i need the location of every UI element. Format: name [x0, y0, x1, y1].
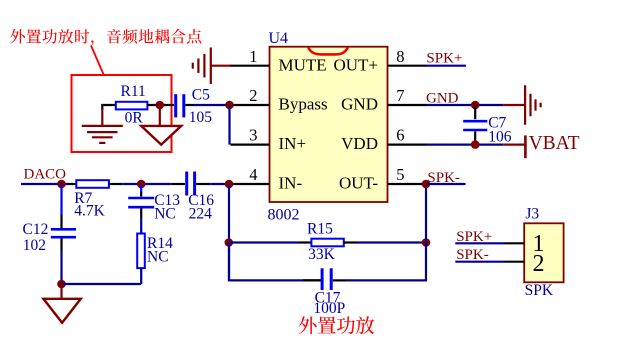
wire bottom horizontal — [62, 283, 142, 285]
ground (power port at GND net) — [503, 104, 524, 106]
resistor R11 — [116, 102, 148, 110]
svg-text:C12: C12 — [23, 221, 49, 238]
svg-text:224: 224 — [189, 206, 213, 223]
node GND/C7 junction — [471, 101, 480, 110]
capacitor C12 — [51, 0, 251, 251]
J3 pin 1 — [505, 242, 525, 244]
wire DACO — [21, 183, 68, 185]
ground triangle stem — [60, 284, 62, 299]
capacitor C7 — [463, 105, 487, 145]
svg-text:8: 8 — [396, 47, 404, 66]
U4 pin 1 — [230, 65, 270, 67]
resistor R15 — [311, 239, 343, 247]
node VBAT/C7 junction — [471, 140, 480, 149]
VBAT power bar — [503, 144, 524, 146]
resistor R15 right wire — [357, 241, 426, 243]
svg-text:5: 5 — [396, 165, 404, 184]
U4 pin 6 — [388, 144, 427, 146]
capacitor C5 — [164, 94, 194, 117]
J3 pin 2 — [505, 261, 525, 263]
U4 pin 2 — [231, 104, 270, 106]
svg-text:8002: 8002 — [268, 206, 300, 223]
svg-text:0R: 0R — [125, 110, 144, 127]
wire SPK+ to J3 — [455, 242, 504, 244]
node R15 right junction — [422, 238, 431, 247]
wire R7 to C13/C16 node — [122, 183, 171, 185]
svg-text:4.7K: 4.7K — [74, 202, 105, 219]
connector J3 body — [524, 223, 563, 282]
wire C13 to R14 — [140, 217, 142, 234]
wire pin4 node down left side — [228, 184, 230, 282]
ground triangle (bottom left) — [43, 299, 80, 323]
svg-text:106: 106 — [488, 129, 512, 146]
U4 pin 7 — [388, 104, 427, 106]
resistor R7 — [76, 180, 109, 188]
U4 pin 8 — [388, 65, 427, 67]
svg-text:NC: NC — [147, 249, 169, 266]
svg-text:VBAT: VBAT — [529, 133, 580, 154]
svg-text:7: 7 — [396, 86, 404, 105]
wire SPK- to J3 — [455, 261, 504, 263]
wire pin7 to C7 node — [427, 104, 504, 106]
svg-text:C5: C5 — [192, 86, 210, 103]
svg-text:DACO: DACO — [24, 166, 67, 182]
node pin4/feedback junction — [225, 180, 234, 189]
svg-text:GND: GND — [341, 95, 378, 114]
svg-text:SPK+: SPK+ — [426, 50, 462, 66]
node pin2/pin3 junction — [225, 101, 234, 110]
svg-text:IN-: IN- — [279, 174, 303, 193]
svg-text:VDD: VDD — [341, 134, 378, 153]
svg-text:R11: R11 — [121, 83, 146, 100]
analog ground triangle stem — [159, 105, 161, 127]
annotation box around R11 ground coupling — [72, 75, 172, 152]
svg-text:SPK: SPK — [525, 282, 554, 299]
wire SPK- stub — [426, 183, 466, 185]
wire R11 left to earth ground — [102, 105, 116, 110]
svg-text:IN+: IN+ — [279, 134, 307, 153]
wire R11 right to node — [147, 104, 166, 106]
wire SPK+ stub — [427, 65, 467, 67]
resistor R7 right stub — [109, 183, 122, 185]
node C12/R14 bottom junction — [57, 280, 66, 289]
annotation callout line — [91, 46, 104, 76]
svg-text:U4: U4 — [269, 30, 289, 47]
svg-text:1: 1 — [249, 47, 257, 66]
svg-text:33K: 33K — [308, 246, 336, 263]
wire node down to pin 3 — [228, 105, 230, 145]
svg-text:4: 4 — [249, 165, 257, 184]
caption 外置功放 — [299, 316, 317, 334]
analog ground triangle — [141, 126, 181, 145]
resistor R15 left stub — [299, 241, 312, 243]
capacitor C13 — [128, 184, 154, 217]
wire C5 to pin2 node — [194, 104, 230, 106]
svg-text:3: 3 — [249, 126, 257, 145]
node R7/C13/C16 junction — [137, 180, 146, 189]
svg-text:NC: NC — [154, 206, 176, 223]
op-amp U4 body (8002 audio amplifier) — [270, 47, 388, 202]
node R15 left junction — [225, 238, 234, 247]
svg-text:100P: 100P — [313, 300, 345, 317]
svg-text:102: 102 — [23, 237, 46, 254]
U4 pin 3 — [231, 144, 270, 146]
svg-text:2: 2 — [533, 251, 545, 277]
node R11/C5 junction — [156, 101, 165, 110]
svg-text:OUT+: OUT+ — [333, 55, 378, 74]
wire C16 to pin4 node — [210, 183, 229, 185]
svg-text:MUTE: MUTE — [279, 55, 327, 74]
wire pin6 to VBAT — [427, 144, 504, 146]
node pin5 junction — [422, 180, 431, 189]
resistor R7 left stub — [68, 183, 77, 185]
capacitor C16 — [171, 172, 210, 196]
svg-text:J3: J3 — [525, 206, 539, 223]
wire right side up to pin5 — [425, 184, 427, 243]
svg-text:105: 105 — [189, 109, 213, 126]
wire loop bottom right corner — [346, 243, 427, 281]
U4 notch arc — [308, 47, 348, 55]
svg-text:OUT-: OUT- — [339, 174, 378, 193]
annotation text 外置功放时，音频地耦合点 — [10, 29, 25, 44]
resistor R14 — [137, 234, 145, 269]
wire R14 to bottom — [140, 268, 142, 284]
node DACO/R7/C12 junction — [57, 180, 66, 189]
resistor R15 left wire — [229, 241, 299, 243]
ground (power port at U4 pin 1) — [212, 65, 231, 67]
capacitor C17 — [303, 268, 346, 290]
svg-text:Bypass: Bypass — [279, 95, 328, 114]
svg-text:R15: R15 — [307, 220, 333, 237]
svg-text:2: 2 — [249, 86, 257, 105]
svg-text:6: 6 — [396, 126, 404, 145]
earth ground (inside annotation box) — [101, 108, 103, 126]
wire C12 to bottom node — [60, 251, 62, 284]
wire loop bottom left corner — [229, 243, 321, 281]
resistor R15 right stub — [344, 241, 357, 243]
U4 pin 4 — [231, 183, 270, 185]
U4 pin 5 — [388, 183, 427, 185]
